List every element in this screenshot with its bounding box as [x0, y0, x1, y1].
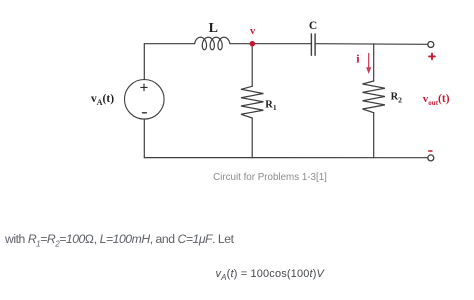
- wire: capacitor to output terminal (top): [316, 43, 428, 46]
- svg-text:R1: R1: [265, 99, 277, 112]
- inductor L coil: [195, 37, 230, 50]
- svg-text:L: L: [209, 21, 218, 36]
- wire: node v down to R1: [251, 44, 253, 87]
- wire: R2 to bottom rail: [373, 113, 375, 158]
- source polarity minus sign: [142, 112, 146, 114]
- output terminal bottom (open circle): [428, 155, 434, 161]
- body text: [5, 232, 234, 248]
- output plus (red): [429, 54, 435, 60]
- svg-text:R2: R2: [391, 91, 403, 104]
- capacitor C left plate: [310, 34, 312, 55]
- current arrow i (red, pointing down): [366, 54, 371, 75]
- svg-text:i: i: [356, 51, 360, 65]
- node v (junction dot): [250, 41, 256, 47]
- equation: [216, 268, 325, 282]
- wire: top rail down to R2: [373, 44, 375, 81]
- svg-text:vA(t): vA(t): [91, 93, 114, 107]
- wire: inductor to capacitor left plate: [230, 43, 311, 45]
- output terminal top (open circle): [428, 42, 434, 48]
- wire: source top to top rail to inductor: [144, 44, 194, 80]
- resistor R2 zigzag: [363, 81, 385, 113]
- voltage source vA circle: [125, 80, 165, 120]
- wire: source bottom to bottom rail: [143, 119, 145, 158]
- svg-text:C: C: [309, 20, 317, 32]
- wire: bottom rail: [144, 157, 427, 159]
- figure caption: [0, 172, 474, 183]
- svg-text:vout(t): vout(t): [423, 93, 450, 107]
- resistor R1 zigzag: [241, 86, 263, 118]
- wire: R1 to bottom rail: [251, 118, 253, 158]
- svg-text:v: v: [250, 26, 256, 37]
- capacitor C right plate: [314, 34, 316, 55]
- circuit schematic figure: [0, 0, 474, 230]
- source polarity plus sign: [141, 84, 147, 91]
- output minus (red): [429, 150, 432, 152]
